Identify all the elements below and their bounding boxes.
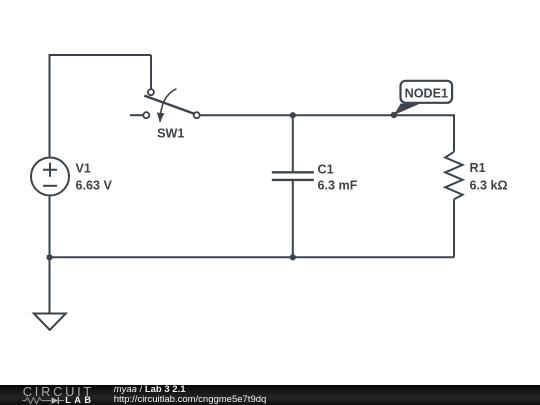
switch SW1 lever	[144, 96, 194, 114]
resistor R1	[445, 152, 462, 200]
node NODE1 box	[401, 81, 453, 103]
wire bottom horizontal	[50, 256, 455, 258]
node NODE1 tail	[394, 104, 420, 115]
ground	[34, 314, 66, 331]
svg-text:LAB: LAB	[65, 395, 94, 405]
wire capacitor top	[292, 115, 294, 171]
wire switch left stub	[130, 114, 143, 116]
wire left vertical lower	[49, 197, 51, 258]
wire switch output to right corner	[200, 115, 454, 152]
footer credit text	[114, 385, 267, 404]
switch SW1 arrow	[160, 89, 177, 122]
wire capacitor bottom	[292, 181, 294, 257]
junction dot capacitor top	[290, 112, 296, 118]
voltage source V1	[31, 158, 69, 196]
wire resistor bottom	[453, 199, 455, 257]
wire top-left horizontal and left vertical upper	[50, 55, 152, 157]
junction dot left-bottom	[46, 254, 52, 260]
footer bar	[0, 385, 540, 405]
wire switch top vertical	[150, 55, 152, 89]
capacitor C1	[272, 172, 314, 180]
node NODE1 dot	[391, 112, 397, 118]
switch SW1 terminals	[143, 89, 199, 118]
junction dot capacitor bottom	[290, 254, 296, 260]
wire ground stem	[49, 257, 51, 313]
